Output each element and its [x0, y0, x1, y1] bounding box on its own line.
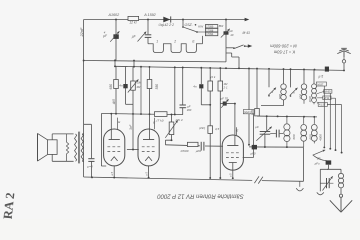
svg-text:µF 70: µF 70	[221, 97, 229, 101]
svg-text:17k 4: 17k 4	[175, 118, 183, 122]
svg-text:RA 2: RA 2	[1, 192, 18, 219]
svg-text:a 5: a 5	[144, 172, 148, 176]
svg-text:K = 17-50m: K = 17-50m	[273, 50, 295, 55]
svg-text:17098: 17098	[206, 29, 214, 32]
svg-text:680: 680	[109, 84, 113, 90]
svg-text:UqL42 2·2: UqL42 2·2	[159, 23, 175, 27]
svg-text:A 1592: A 1592	[143, 13, 156, 17]
svg-text:4n: 4n	[119, 84, 123, 88]
svg-text:4000: 4000	[308, 96, 312, 103]
svg-text:µF: µF	[255, 125, 259, 129]
svg-text:22nF: 22nF	[79, 27, 84, 37]
svg-text:M-89: M-89	[325, 90, 331, 94]
svg-text:µ-5: µ-5	[319, 74, 324, 78]
svg-text:OSZ.: OSZ.	[185, 23, 193, 27]
svg-text:M.87: M.87	[318, 82, 324, 86]
svg-text:10: 10	[230, 33, 234, 37]
svg-text:2·1: 2·1	[223, 86, 228, 90]
svg-text:a 5: a 5	[229, 173, 233, 177]
svg-text:580: 580	[155, 84, 159, 90]
svg-text:M·43: M·43	[243, 31, 250, 35]
svg-text:(7 k!): (7 k!)	[157, 118, 164, 122]
svg-text:(2 k: (2 k	[210, 75, 215, 79]
svg-text:600: 600	[278, 94, 282, 99]
svg-text:1M0: 1M0	[250, 109, 254, 115]
svg-text:BW: BW	[219, 24, 224, 28]
svg-text:600: 600	[309, 134, 313, 139]
svg-text:600: 600	[299, 94, 303, 99]
svg-text:µ=5: µ=5	[87, 165, 93, 169]
svg-text:17094: 17094	[206, 33, 214, 36]
svg-text:4,5: 4,5	[215, 127, 220, 131]
svg-text:4k5: 4k5	[112, 99, 116, 104]
svg-text:µF0: µF0	[251, 151, 256, 155]
svg-text:M = 200-600m: M = 200-600m	[270, 43, 297, 48]
svg-text:17099: 17099	[206, 26, 214, 29]
svg-text:1: 1	[156, 39, 158, 43]
svg-text:4n: 4n	[193, 85, 197, 89]
svg-text:2: 2	[173, 39, 176, 43]
svg-text:600: 600	[292, 134, 296, 139]
svg-text:A1602: A1602	[108, 13, 120, 17]
svg-text:JPL: JPL	[317, 157, 322, 161]
svg-text:41.57: 41.57	[319, 103, 326, 107]
svg-text:10k: 10k	[137, 81, 142, 85]
svg-text:4000: 4000	[319, 134, 323, 141]
svg-text:µF0: µF0	[196, 149, 202, 153]
svg-text:Sämtliche Röhren RV 12 P 2000: Sämtliche Röhren RV 12 P 2000	[157, 193, 244, 199]
svg-text:12 k!: 12 k!	[129, 21, 136, 25]
svg-text:µFu: µFu	[315, 162, 320, 166]
svg-text:a 5: a 5	[110, 171, 114, 175]
svg-text:300: 300	[187, 108, 192, 112]
svg-text:M.W: M.W	[324, 96, 330, 100]
svg-text:17k00: 17k00	[180, 149, 189, 153]
svg-text:(2k!): (2k!)	[199, 126, 205, 130]
